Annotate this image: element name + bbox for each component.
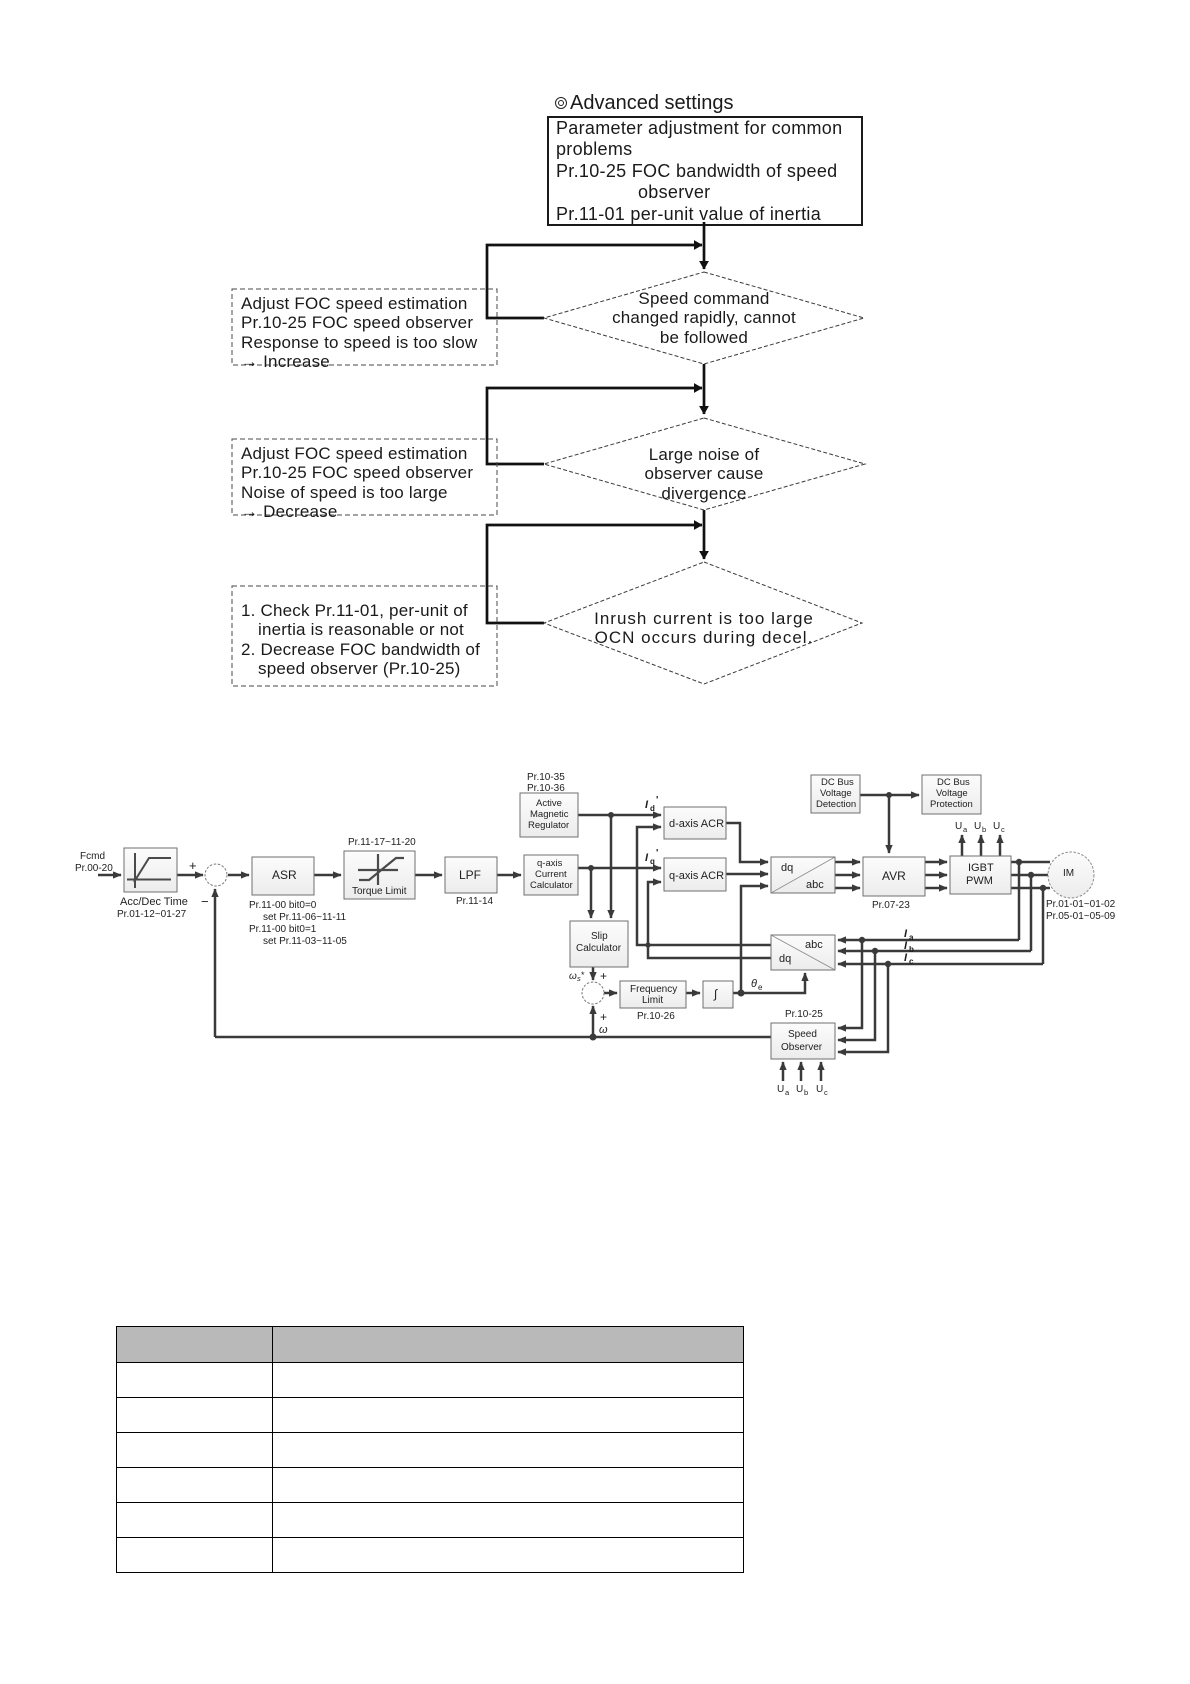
svg-text:c: c <box>1001 825 1005 834</box>
svg-text:+: + <box>189 858 197 873</box>
svg-text:Calculator: Calculator <box>530 880 573 891</box>
svg-text:q-axis ACR: q-axis ACR <box>669 870 724 882</box>
svg-text:dq: dq <box>781 862 793 874</box>
svg-text:−: − <box>201 894 209 909</box>
svg-text:c: c <box>909 957 914 966</box>
svg-text:DC Bus: DC Bus <box>821 777 854 788</box>
svg-text:Observer: Observer <box>781 1042 823 1053</box>
svg-text:d-axis ACR: d-axis ACR <box>669 818 724 830</box>
svg-text:Pr.01-01~01-02: Pr.01-01~01-02 <box>1046 899 1116 910</box>
svg-text:Pr.00-20: Pr.00-20 <box>75 863 113 874</box>
svg-text:Pr.11-14: Pr.11-14 <box>456 896 493 907</box>
svg-text:Acc/Dec Time: Acc/Dec Time <box>120 896 188 908</box>
svg-text:AVR: AVR <box>882 869 906 883</box>
svg-text:set Pr.11-03~11-05: set Pr.11-03~11-05 <box>263 936 347 947</box>
svg-text:Frequency: Frequency <box>630 984 677 995</box>
svg-text:U: U <box>796 1084 803 1095</box>
svg-text:I: I <box>904 952 908 964</box>
svg-text:Pr.11-00 bit0=1: Pr.11-00 bit0=1 <box>249 924 317 935</box>
svg-text:a: a <box>963 825 968 834</box>
svg-text:U: U <box>816 1084 823 1095</box>
svg-text:Detection: Detection <box>816 799 856 810</box>
svg-text:b: b <box>909 945 914 954</box>
svg-text:a: a <box>909 933 914 942</box>
svg-text:IM: IM <box>1063 868 1074 879</box>
svg-text:Magnetic: Magnetic <box>530 809 569 820</box>
svg-text:I: I <box>904 928 908 940</box>
svg-text:Voltage: Voltage <box>820 788 852 799</box>
svg-text:I: I <box>645 852 649 864</box>
svg-text:Voltage: Voltage <box>936 788 968 799</box>
svg-text:U: U <box>777 1084 784 1095</box>
svg-text:Pr.11-00 bit0=0: Pr.11-00 bit0=0 <box>249 900 317 911</box>
svg-text:ASR: ASR <box>272 868 297 882</box>
svg-text:Pr.10-26: Pr.10-26 <box>637 1011 675 1022</box>
svg-text:IGBT: IGBT <box>968 862 994 874</box>
svg-text:U: U <box>974 821 981 832</box>
svg-text:': ' <box>656 848 658 859</box>
svg-text:ω: ω <box>599 1024 608 1036</box>
svg-text:LPF: LPF <box>459 868 481 882</box>
svg-text:Calculator: Calculator <box>576 943 622 954</box>
svg-text:Protection: Protection <box>930 799 973 810</box>
svg-text:Limit: Limit <box>642 995 663 1006</box>
svg-text:dq: dq <box>779 953 791 965</box>
svg-text:+: + <box>600 1010 607 1024</box>
svg-text:∫: ∫ <box>713 987 718 1001</box>
svg-text:abc: abc <box>806 879 824 891</box>
svg-text:*: * <box>581 970 585 980</box>
svg-text:ω: ω <box>569 971 577 982</box>
svg-text:Current: Current <box>535 869 567 880</box>
svg-text:Pr.10-35: Pr.10-35 <box>527 772 565 783</box>
svg-text:Torque Limit: Torque Limit <box>352 886 407 897</box>
svg-text:Pr.05-01~05-09: Pr.05-01~05-09 <box>1046 911 1116 922</box>
svg-text:DC Bus: DC Bus <box>937 777 970 788</box>
svg-text:b: b <box>804 1088 808 1097</box>
svg-text:c: c <box>824 1088 828 1097</box>
svg-text:Fcmd: Fcmd <box>80 851 105 862</box>
svg-text:Pr.07-23: Pr.07-23 <box>872 900 910 911</box>
svg-text:Slip: Slip <box>591 931 608 942</box>
svg-text:Pr.11-17~11-20: Pr.11-17~11-20 <box>348 837 416 848</box>
svg-text:abc: abc <box>805 939 823 951</box>
svg-text:PWM: PWM <box>966 875 993 887</box>
svg-text:θ: θ <box>751 978 757 990</box>
svg-text:a: a <box>785 1088 790 1097</box>
svg-text:Pr.01-12~01-27: Pr.01-12~01-27 <box>117 909 187 920</box>
svg-text:+: + <box>600 969 607 983</box>
svg-text:d: d <box>650 804 655 813</box>
svg-text:Pr.10-25: Pr.10-25 <box>785 1009 823 1020</box>
svg-text:U: U <box>955 821 962 832</box>
svg-text:set Pr.11-06~11-11: set Pr.11-06~11-11 <box>263 912 347 923</box>
svg-text:Active: Active <box>536 798 562 809</box>
svg-text:': ' <box>656 795 658 806</box>
svg-text:U: U <box>993 821 1000 832</box>
svg-text:q-axis: q-axis <box>537 858 563 869</box>
svg-text:I: I <box>645 799 649 811</box>
svg-text:q: q <box>650 857 655 866</box>
svg-text:Regulator: Regulator <box>528 820 569 831</box>
svg-text:Pr.10-36: Pr.10-36 <box>527 783 565 794</box>
svg-text:e: e <box>758 983 763 992</box>
svg-text:Speed: Speed <box>788 1029 817 1040</box>
svg-text:b: b <box>982 825 986 834</box>
